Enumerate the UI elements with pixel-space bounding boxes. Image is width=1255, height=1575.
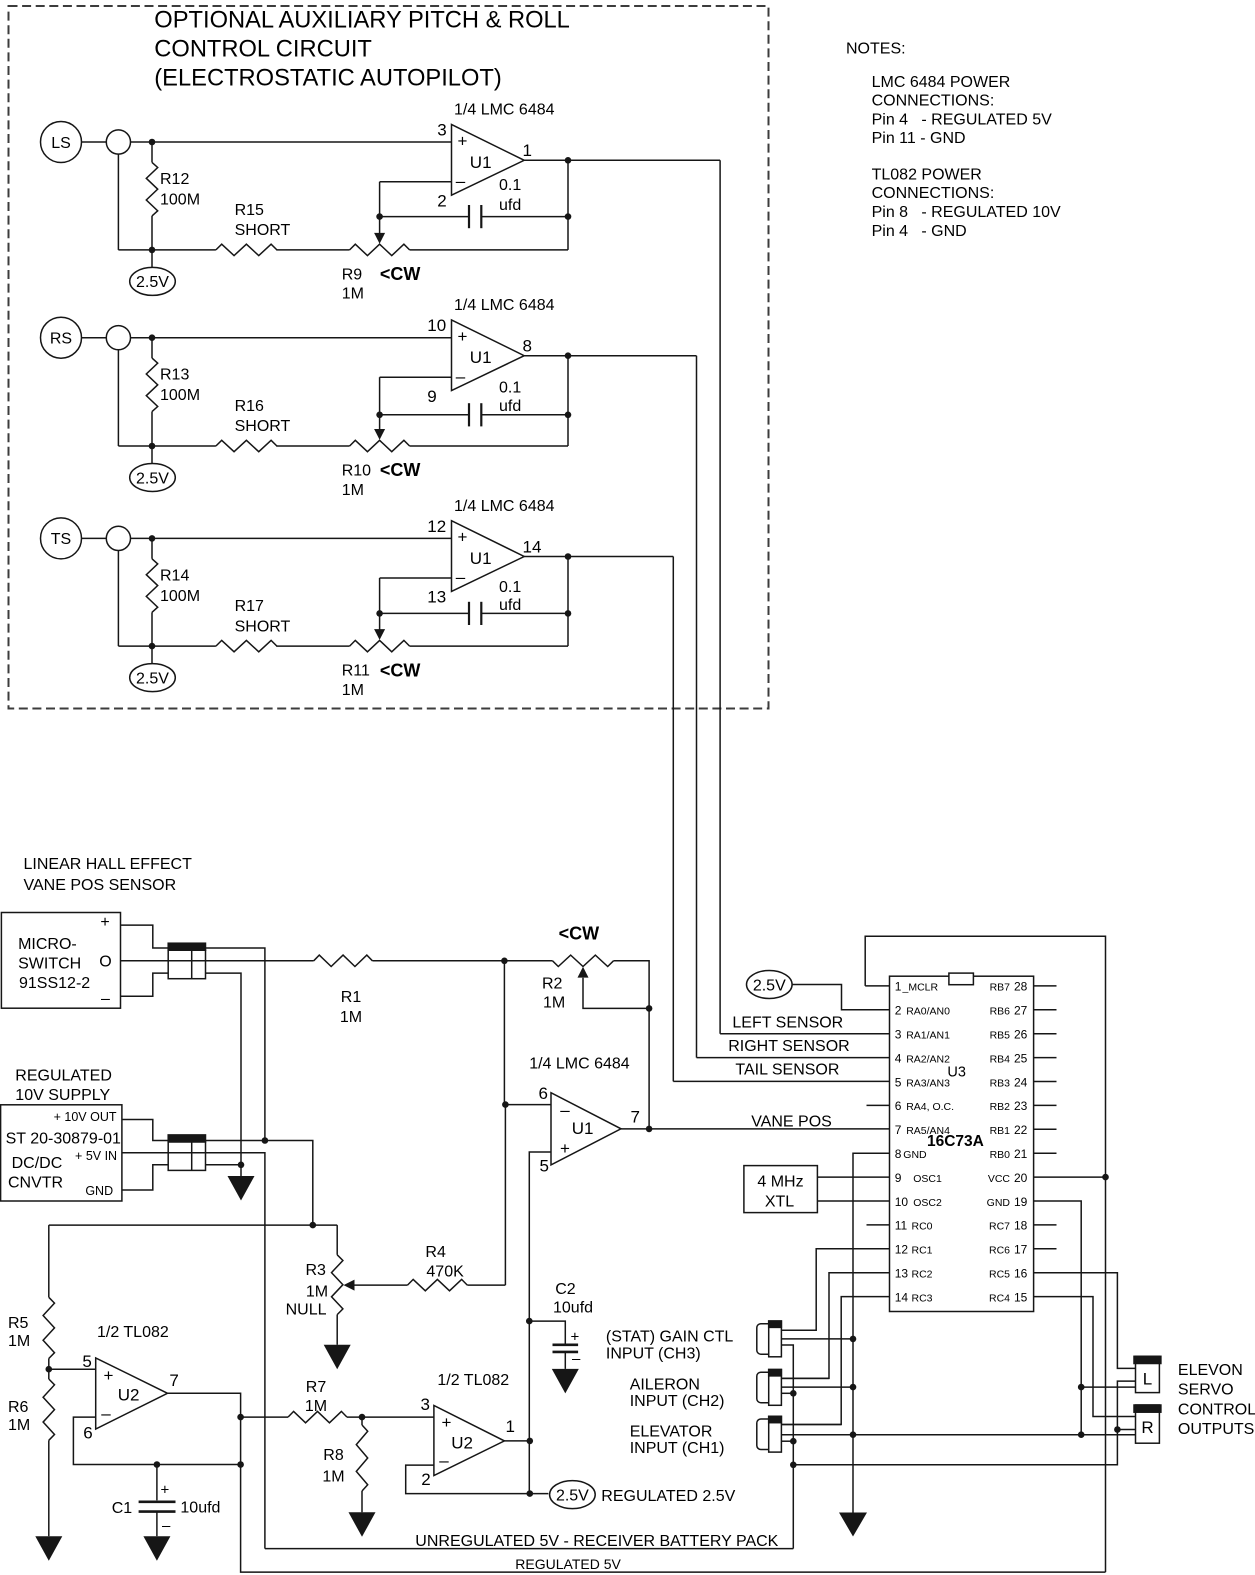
svg-text:+ 5V IN: + 5V IN — [75, 1149, 117, 1163]
svg-text:REGULATED 2.5V: REGULATED 2.5V — [601, 1488, 735, 1505]
svg-text:6: 6 — [539, 1084, 548, 1103]
svg-text:RC5: RC5 — [989, 1269, 1010, 1281]
svg-text:1M: 1M — [342, 482, 364, 499]
svg-text:L: L — [1143, 1370, 1152, 1389]
svg-text:0.1: 0.1 — [499, 579, 521, 596]
svg-text:1/4 LMC 6484: 1/4 LMC 6484 — [454, 102, 555, 119]
svg-text:U2: U2 — [451, 1433, 473, 1452]
svg-text:RB4: RB4 — [990, 1053, 1011, 1065]
svg-text:RC6: RC6 — [989, 1245, 1010, 1257]
svg-text:SHORT: SHORT — [235, 222, 291, 239]
svg-text:–: – — [572, 1351, 581, 1368]
svg-text:2.5V: 2.5V — [136, 670, 169, 687]
svg-text:1: 1 — [523, 141, 532, 160]
svg-text:1M: 1M — [8, 1333, 30, 1350]
svg-text:Pin 11 - GND: Pin 11 - GND — [872, 130, 966, 147]
svg-text:27: 27 — [1014, 1004, 1028, 1018]
svg-text:RA4, O.C.: RA4, O.C. — [906, 1101, 954, 1113]
svg-text:R9: R9 — [342, 267, 363, 284]
svg-text:RA2/AN2: RA2/AN2 — [906, 1053, 950, 1065]
svg-text:RB3: RB3 — [990, 1077, 1011, 1089]
svg-text:26: 26 — [1014, 1028, 1028, 1042]
svg-text:OUTPUTS: OUTPUTS — [1178, 1421, 1254, 1438]
svg-text:–: – — [439, 1451, 449, 1470]
svg-text:2.5V: 2.5V — [753, 977, 786, 994]
svg-text:Pin 4 - GND: Pin 4 - GND — [872, 223, 967, 240]
svg-text:RC4: RC4 — [989, 1292, 1010, 1304]
svg-text:3: 3 — [421, 1395, 430, 1414]
svg-text:0.1: 0.1 — [499, 380, 521, 397]
svg-text:21: 21 — [1014, 1147, 1028, 1161]
svg-text:+: + — [458, 131, 468, 150]
svg-text:U1: U1 — [470, 549, 492, 568]
svg-text:INPUT (CH1): INPUT (CH1) — [630, 1440, 725, 1457]
svg-text:10: 10 — [427, 316, 446, 335]
svg-text:12: 12 — [895, 1243, 909, 1257]
svg-text:ELEVON: ELEVON — [1178, 1362, 1243, 1379]
svg-text:R14: R14 — [160, 567, 189, 584]
svg-text:+: + — [560, 1139, 570, 1158]
svg-text:6: 6 — [895, 1099, 902, 1113]
svg-text:RB2: RB2 — [990, 1101, 1011, 1113]
svg-text:1/4 LMC 6484: 1/4 LMC 6484 — [529, 1056, 630, 1073]
svg-text:REGULATED 5V: REGULATED 5V — [515, 1556, 621, 1572]
svg-text:SHORT: SHORT — [235, 618, 291, 635]
svg-text:AILERON: AILERON — [630, 1376, 700, 1393]
svg-text:1M: 1M — [306, 1284, 328, 1301]
svg-text:14: 14 — [895, 1290, 909, 1304]
svg-text:LEFT SENSOR: LEFT SENSOR — [732, 1014, 843, 1031]
svg-text:0.1: 0.1 — [499, 177, 521, 194]
svg-text:R4: R4 — [425, 1244, 446, 1261]
svg-text:R6: R6 — [8, 1399, 29, 1416]
svg-text:<CW: <CW — [380, 264, 421, 284]
svg-text:SERVO: SERVO — [1178, 1382, 1234, 1399]
svg-text:–: – — [101, 991, 110, 1008]
svg-text:28: 28 — [1014, 980, 1028, 994]
svg-text:24: 24 — [1014, 1075, 1028, 1089]
svg-text:100M: 100M — [160, 387, 200, 404]
svg-text:R11: R11 — [342, 663, 370, 680]
svg-text:100M: 100M — [160, 191, 200, 208]
svg-text:U1: U1 — [572, 1119, 594, 1138]
svg-text:RC0: RC0 — [912, 1221, 933, 1233]
svg-text:1M: 1M — [342, 682, 364, 699]
svg-text:+: + — [458, 528, 468, 547]
svg-text:RA1/AN1: RA1/AN1 — [906, 1030, 950, 1042]
svg-text:12: 12 — [427, 517, 446, 536]
svg-text:10ufd: 10ufd — [553, 1299, 593, 1316]
svg-text:VANE POS: VANE POS — [751, 1113, 832, 1130]
svg-text:REGULATED: REGULATED — [15, 1068, 112, 1085]
svg-text:Pin 8 - REGULATED 10V: Pin 8 - REGULATED 10V — [872, 204, 1061, 221]
svg-text:U1: U1 — [470, 348, 492, 367]
svg-text:SWITCH: SWITCH — [18, 955, 81, 972]
svg-text:4: 4 — [895, 1051, 902, 1065]
svg-text:9: 9 — [895, 1171, 902, 1185]
svg-text:+: + — [161, 1481, 170, 1498]
svg-text:5: 5 — [540, 1157, 549, 1176]
svg-text:1/2 TL082: 1/2 TL082 — [97, 1324, 169, 1341]
svg-text:1/2 TL082: 1/2 TL082 — [437, 1372, 509, 1389]
svg-text:100M: 100M — [160, 588, 200, 605]
svg-text:INPUT (CH2): INPUT (CH2) — [630, 1393, 725, 1410]
svg-text:7: 7 — [169, 1371, 178, 1390]
svg-text:10ufd: 10ufd — [180, 1500, 220, 1517]
svg-text:7: 7 — [631, 1108, 640, 1127]
svg-text:+: + — [100, 914, 109, 931]
svg-text:2.5V: 2.5V — [136, 274, 169, 291]
svg-text:CNVTR: CNVTR — [8, 1174, 63, 1191]
svg-text:1/4 LMC 6484: 1/4 LMC 6484 — [454, 297, 555, 314]
svg-text:RC1: RC1 — [912, 1245, 933, 1257]
svg-text:TS: TS — [51, 531, 71, 548]
svg-text:XTL: XTL — [765, 1193, 794, 1210]
svg-text:OPTIONAL AUXILIARY PITCH & ROL: OPTIONAL AUXILIARY PITCH & ROLL — [154, 7, 570, 33]
svg-text:RB5: RB5 — [990, 1030, 1011, 1042]
svg-text:+: + — [442, 1413, 452, 1432]
svg-text:3: 3 — [437, 120, 446, 139]
svg-text:RB0: RB0 — [990, 1149, 1011, 1161]
svg-text:_MCLR: _MCLR — [902, 982, 939, 994]
svg-text:+: + — [458, 327, 468, 346]
svg-text:U2: U2 — [118, 1386, 140, 1405]
svg-text:ufd: ufd — [499, 197, 521, 214]
svg-text:OSC1: OSC1 — [913, 1173, 942, 1185]
svg-text:<CW: <CW — [559, 924, 600, 944]
svg-text:–: – — [162, 1518, 171, 1535]
svg-text:3: 3 — [895, 1028, 902, 1042]
svg-text:GND: GND — [987, 1197, 1011, 1209]
svg-text:RC3: RC3 — [912, 1292, 933, 1304]
svg-text:91SS12-2: 91SS12-2 — [19, 975, 90, 992]
svg-text:C1: C1 — [112, 1500, 133, 1517]
svg-text:2: 2 — [895, 1004, 902, 1018]
svg-text:5: 5 — [895, 1075, 902, 1089]
svg-text:10V SUPPLY: 10V SUPPLY — [15, 1087, 110, 1104]
svg-text:8: 8 — [523, 337, 532, 356]
svg-text:23: 23 — [1014, 1099, 1028, 1113]
svg-text:RB7: RB7 — [990, 982, 1011, 994]
svg-text:CONTROL CIRCUIT: CONTROL CIRCUIT — [154, 37, 372, 63]
svg-text:U1: U1 — [470, 153, 492, 172]
svg-text:–: – — [101, 1404, 111, 1423]
svg-text:VANE POS SENSOR: VANE POS SENSOR — [24, 877, 177, 894]
svg-text:LINEAR HALL EFFECT: LINEAR HALL EFFECT — [24, 856, 193, 873]
svg-text:CONNECTIONS:: CONNECTIONS: — [872, 93, 995, 110]
svg-text:25: 25 — [1014, 1051, 1028, 1065]
svg-text:RIGHT SENSOR: RIGHT SENSOR — [728, 1038, 850, 1055]
svg-text:ELEVATOR: ELEVATOR — [630, 1423, 713, 1440]
svg-text:16: 16 — [1014, 1267, 1028, 1281]
svg-text:20: 20 — [1014, 1171, 1028, 1185]
svg-text:–: – — [456, 568, 466, 587]
svg-text:R2: R2 — [542, 976, 563, 993]
svg-text:–: – — [456, 171, 466, 190]
svg-text:RC2: RC2 — [912, 1269, 933, 1281]
svg-text:RB1: RB1 — [990, 1125, 1011, 1137]
svg-text:R: R — [1141, 1418, 1153, 1437]
svg-text:RB6: RB6 — [990, 1006, 1011, 1018]
svg-text:2.5V: 2.5V — [136, 470, 169, 487]
svg-text:VCC: VCC — [988, 1173, 1011, 1185]
svg-text:(STAT) GAIN CTL: (STAT) GAIN CTL — [606, 1329, 734, 1346]
svg-text:R10: R10 — [342, 463, 371, 480]
svg-text:5: 5 — [82, 1352, 91, 1371]
svg-text:R8: R8 — [323, 1447, 344, 1464]
svg-text:R13: R13 — [160, 367, 189, 384]
svg-text:R7: R7 — [306, 1379, 327, 1396]
svg-text:4 MHz: 4 MHz — [757, 1174, 803, 1191]
svg-text:INPUT (CH3): INPUT (CH3) — [606, 1345, 701, 1362]
svg-text:–: – — [560, 1101, 570, 1120]
svg-text:15: 15 — [1014, 1290, 1028, 1304]
svg-text:19: 19 — [1014, 1195, 1028, 1209]
svg-text:RS: RS — [50, 331, 72, 348]
svg-text:NOTES:: NOTES: — [846, 41, 906, 58]
svg-text:13: 13 — [895, 1267, 909, 1281]
svg-text:2: 2 — [421, 1470, 430, 1489]
svg-text:+: + — [571, 1329, 580, 1346]
svg-text:R16: R16 — [235, 398, 264, 415]
svg-text:<CW: <CW — [380, 660, 421, 680]
svg-text:+ 10V OUT: + 10V OUT — [54, 1110, 117, 1124]
svg-text:470K: 470K — [426, 1264, 464, 1281]
svg-text:1M: 1M — [305, 1398, 327, 1415]
svg-text:1M: 1M — [342, 286, 364, 303]
svg-text:R17: R17 — [235, 598, 264, 615]
svg-text:1M: 1M — [340, 1009, 362, 1026]
svg-text:GND: GND — [903, 1149, 927, 1161]
svg-text:CONNECTIONS:: CONNECTIONS: — [872, 185, 995, 202]
svg-text:R1: R1 — [341, 989, 362, 1006]
svg-text:RC7: RC7 — [989, 1221, 1010, 1233]
svg-text:17: 17 — [1014, 1243, 1028, 1257]
svg-text:2: 2 — [437, 191, 446, 210]
svg-text:2.5V: 2.5V — [556, 1488, 589, 1505]
svg-text:Pin 4 - REGULATED 5V: Pin 4 - REGULATED 5V — [872, 111, 1053, 128]
svg-text:SHORT: SHORT — [235, 418, 291, 435]
svg-text:13: 13 — [427, 588, 446, 607]
svg-text:1/4 LMC 6484: 1/4 LMC 6484 — [454, 498, 555, 515]
svg-text:O: O — [99, 954, 111, 971]
svg-text:RA3/AN3: RA3/AN3 — [906, 1077, 950, 1089]
svg-text:TL082 POWER: TL082 POWER — [872, 166, 982, 183]
svg-text:ST 20-30879-01: ST 20-30879-01 — [6, 1130, 121, 1147]
svg-text:MICRO-: MICRO- — [18, 936, 77, 953]
svg-text:1M: 1M — [543, 994, 565, 1011]
svg-text:8: 8 — [895, 1147, 902, 1161]
svg-text:22: 22 — [1014, 1123, 1028, 1137]
svg-text:U3: U3 — [947, 1064, 966, 1080]
svg-text:18: 18 — [1014, 1219, 1028, 1233]
svg-text:7: 7 — [895, 1123, 902, 1137]
svg-text:TAIL SENSOR: TAIL SENSOR — [735, 1062, 839, 1079]
svg-text:ufd: ufd — [499, 597, 521, 614]
svg-text:1M: 1M — [8, 1417, 30, 1434]
svg-text:GND: GND — [85, 1184, 113, 1198]
svg-text:R15: R15 — [235, 202, 264, 219]
svg-text:LMC 6484 POWER: LMC 6484 POWER — [872, 74, 1011, 91]
svg-text:R12: R12 — [160, 171, 189, 188]
svg-text:1: 1 — [895, 980, 902, 994]
svg-text:1: 1 — [506, 1417, 515, 1436]
svg-text:+: + — [104, 1366, 114, 1385]
svg-text:RA0/AN0: RA0/AN0 — [906, 1006, 950, 1018]
svg-text:1M: 1M — [322, 1469, 344, 1486]
svg-text:UNREGULATED 5V - RECEIVER BATT: UNREGULATED 5V - RECEIVER BATTERY PACK — [415, 1533, 778, 1550]
svg-text:R5: R5 — [8, 1315, 29, 1332]
svg-text:R3: R3 — [306, 1262, 327, 1279]
svg-text:10: 10 — [895, 1195, 909, 1209]
svg-text:CONTROL: CONTROL — [1178, 1401, 1255, 1418]
svg-text:–: – — [456, 367, 466, 386]
svg-text:DC/DC: DC/DC — [12, 1155, 63, 1172]
svg-text:16C73A: 16C73A — [927, 1133, 984, 1150]
svg-text:6: 6 — [83, 1424, 92, 1443]
svg-text:11: 11 — [895, 1219, 908, 1233]
svg-text:<CW: <CW — [380, 460, 421, 480]
svg-text:9: 9 — [427, 387, 436, 406]
svg-text:(ELECTROSTATIC AUTOPILOT): (ELECTROSTATIC AUTOPILOT) — [154, 66, 501, 92]
svg-text:14: 14 — [523, 537, 542, 556]
svg-text:NULL: NULL — [286, 1302, 327, 1319]
svg-text:OSC2: OSC2 — [913, 1197, 942, 1209]
svg-text:ufd: ufd — [499, 398, 521, 415]
svg-text:C2: C2 — [555, 1281, 576, 1298]
svg-text:LS: LS — [51, 135, 71, 152]
